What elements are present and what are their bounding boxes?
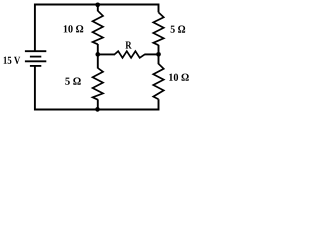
label 10 ohm top middle [64,25,84,32]
wire: middle branch top stub [97,5,99,12]
label 10 ohm bottom right [169,74,189,81]
wire: right rail between node and 10ohm [158,54,160,64]
node: middle junction dot [95,52,100,57]
label 5 ohm top right [171,26,186,33]
label 15 V [4,57,21,64]
battery B1 long plate (top) [25,50,46,52]
resistor R (horizontal) [115,51,145,58]
wire: R branch left segment [98,53,115,55]
battery B1 short plate (bottom) [30,65,41,67]
resistor 5ohm (top right) [153,12,163,45]
wire: middle branch bottom stub [97,99,99,109]
node: dot at right rail / R branch [156,52,161,57]
node: dot at bottom wire / middle branch [95,107,100,112]
node: dot at top wire / middle branch [95,2,100,7]
wire: R branch right segment [144,53,158,55]
resistor 5ohm (bottom middle) [93,68,103,100]
battery B1 short plate [30,56,41,58]
wire: left rail top + top wire + right rail top stub [35,5,159,51]
wire: left rail bottom + bottom wire + right rail bottom stub [35,66,159,110]
resistor 10ohm (bottom right) [153,64,163,100]
wire: right rail between 5ohm and node [158,45,160,55]
wire: middle branch between node and 5ohm [97,54,99,68]
label R [125,42,131,49]
resistor 10ohm (top middle) [93,11,103,45]
wire: middle branch between 10ohm and node [97,44,99,55]
label 5 ohm bottom middle [65,78,80,85]
battery B1 long plate (lower) [25,60,46,62]
